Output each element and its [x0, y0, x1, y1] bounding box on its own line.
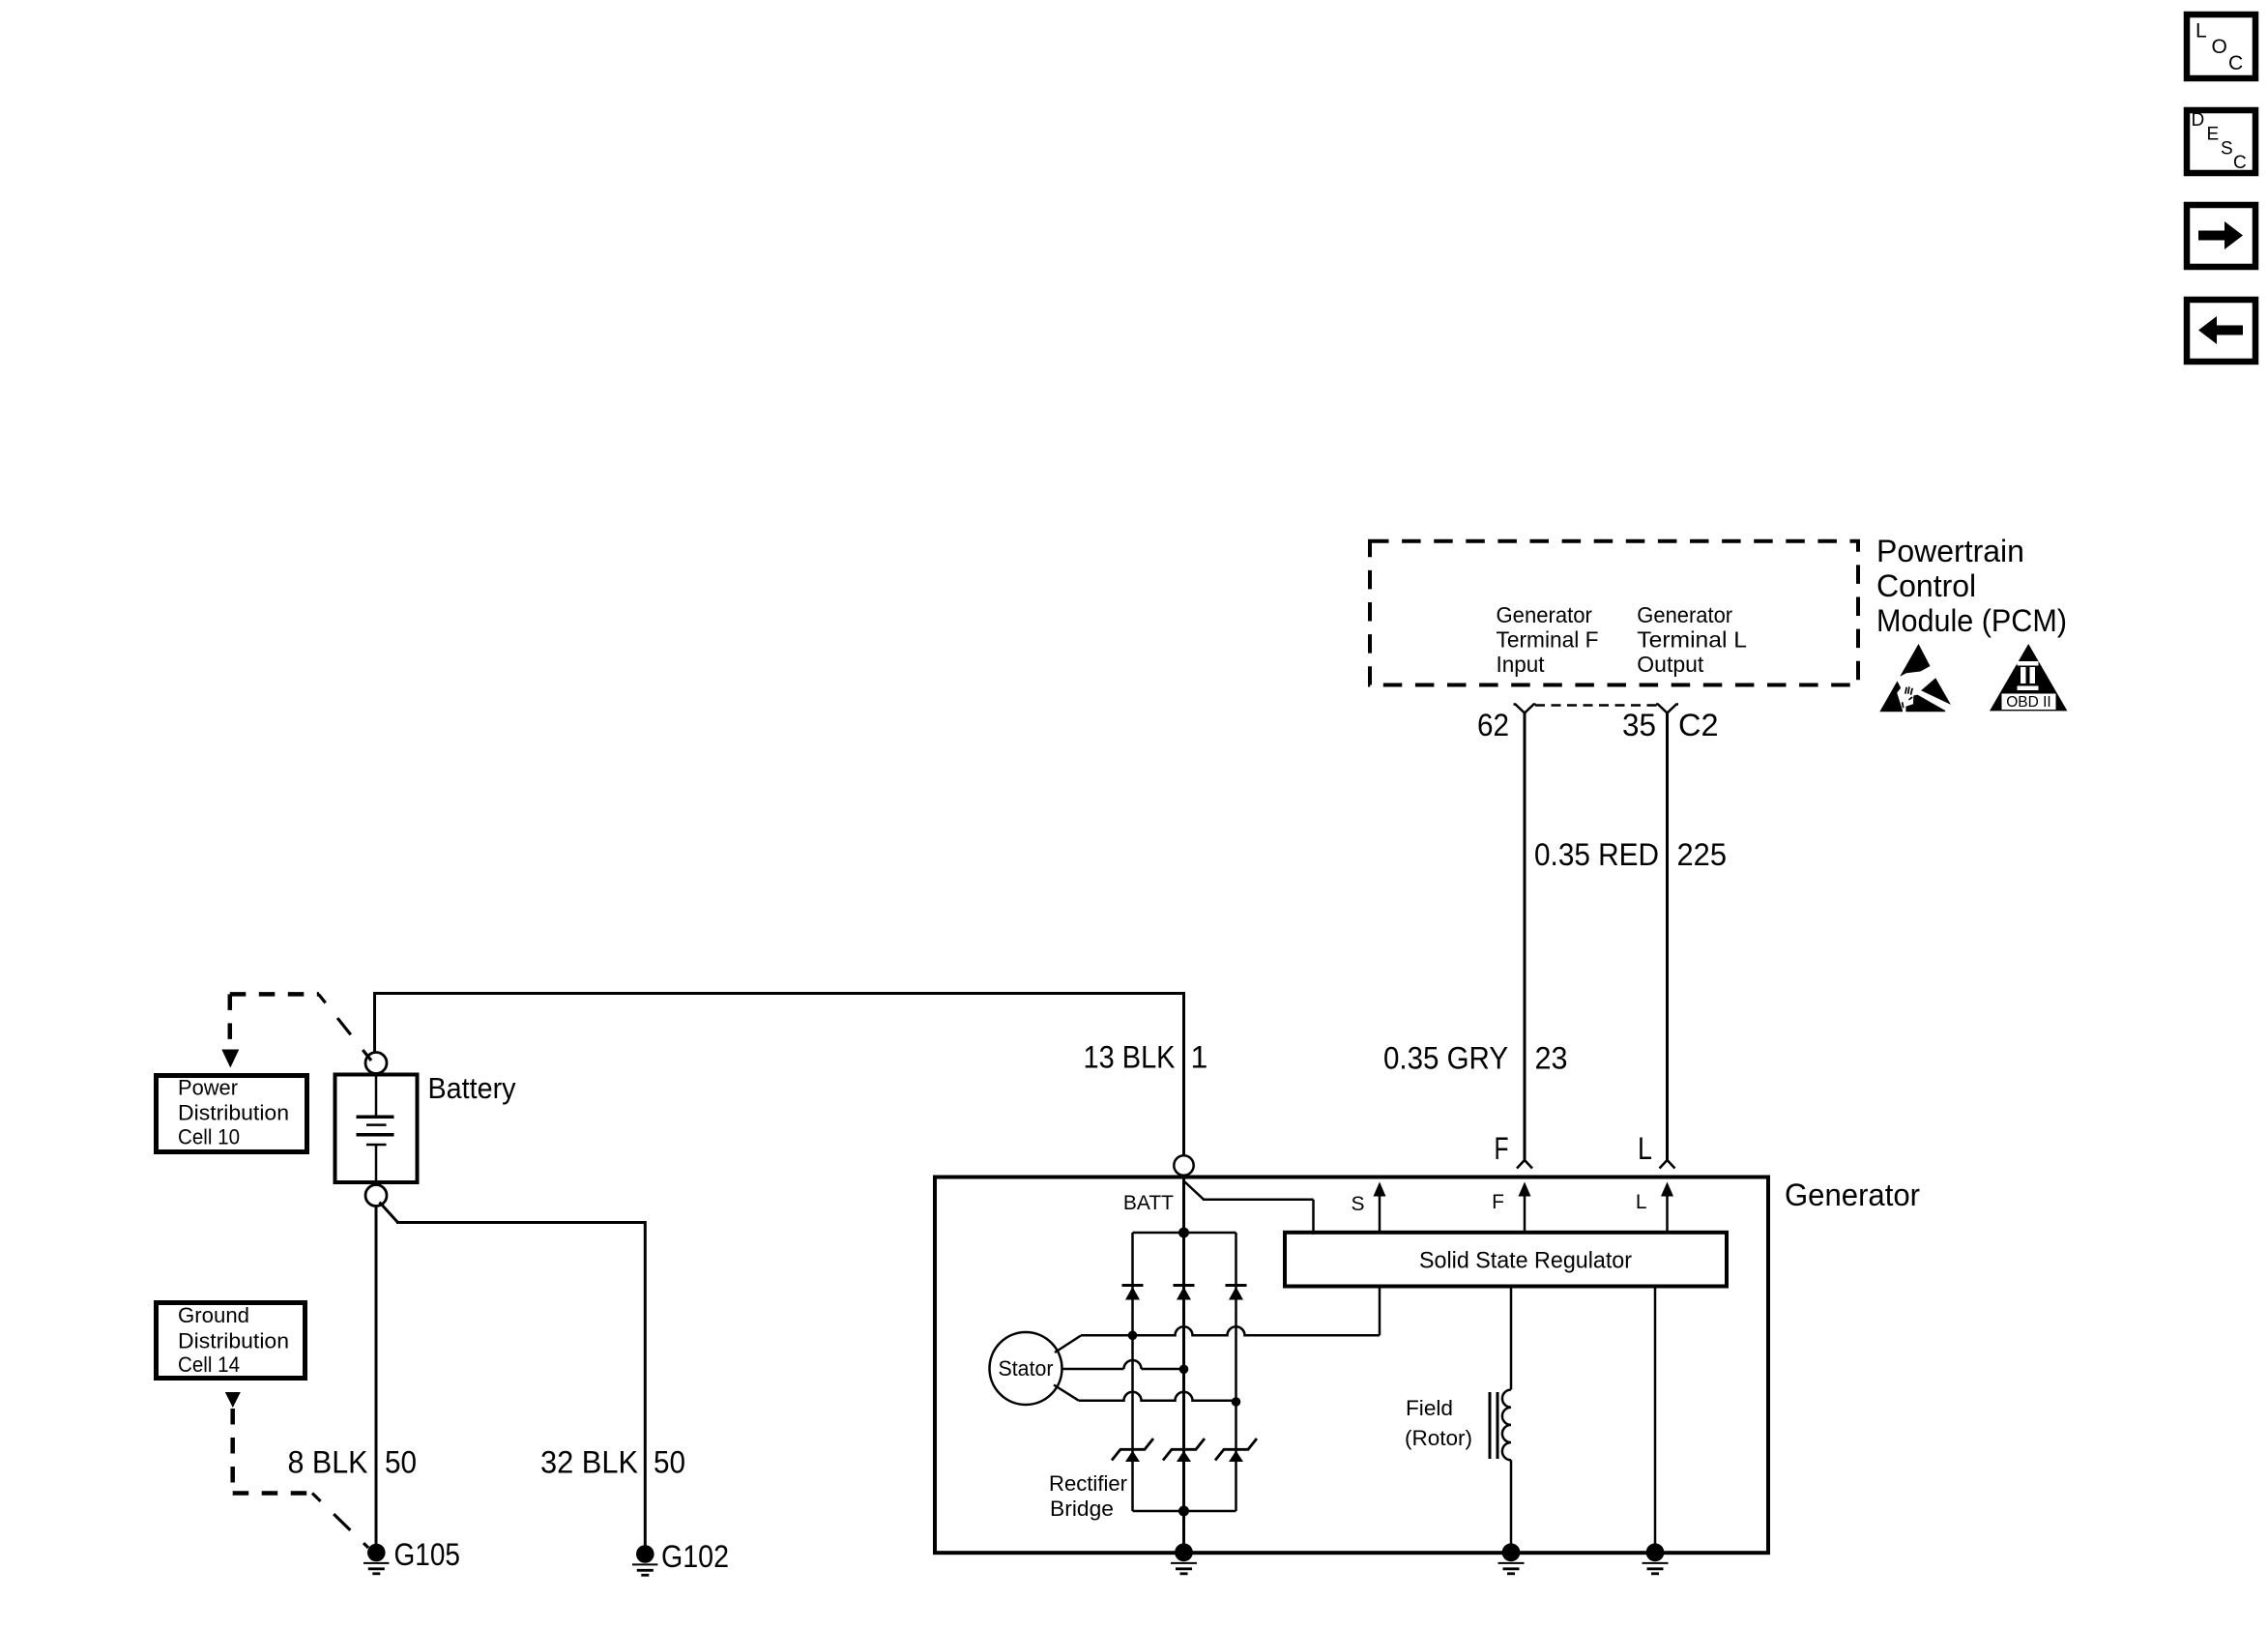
svg-text:35: 35: [1622, 708, 1656, 742]
svg-text:O: O: [2212, 36, 2227, 58]
svg-text:C: C: [2228, 52, 2243, 74]
svg-text:Terminal L: Terminal L: [1637, 627, 1747, 653]
svg-text:Ground: Ground: [178, 1303, 249, 1327]
svg-text:0.35 RED: 0.35 RED: [1534, 837, 1659, 872]
svg-text:Field: Field: [1406, 1396, 1453, 1420]
svg-text:L: L: [2195, 20, 2207, 43]
svg-text:C: C: [2233, 153, 2247, 173]
svg-text:50: 50: [385, 1445, 417, 1480]
svg-text:E: E: [2207, 125, 2220, 145]
svg-text:F: F: [1495, 1131, 1509, 1166]
svg-text:8 BLK: 8 BLK: [288, 1445, 368, 1480]
svg-text:S: S: [1351, 1193, 1364, 1215]
svg-text:23: 23: [1535, 1041, 1568, 1076]
svg-text:L: L: [1636, 1191, 1647, 1213]
svg-text:Powertrain: Powertrain: [1876, 534, 2024, 568]
svg-text:13 BLK: 13 BLK: [1084, 1040, 1176, 1075]
svg-text:Distribution: Distribution: [178, 1101, 289, 1125]
svg-text:Rectifier: Rectifier: [1049, 1471, 1127, 1496]
svg-text:L: L: [1638, 1131, 1652, 1166]
svg-text:Output: Output: [1637, 652, 1703, 677]
svg-text:Solid State Regulator: Solid State Regulator: [1419, 1248, 1632, 1274]
svg-text:D: D: [2192, 110, 2205, 131]
svg-text:225: 225: [1677, 837, 1728, 872]
svg-text:Terminal F: Terminal F: [1497, 627, 1599, 653]
svg-text:Generator: Generator: [1637, 602, 1732, 627]
svg-text:Generator: Generator: [1785, 1177, 1920, 1212]
svg-text:G102: G102: [661, 1539, 729, 1574]
svg-text:Generator: Generator: [1497, 602, 1593, 627]
svg-text:F: F: [1492, 1191, 1504, 1213]
svg-text:Cell 14: Cell 14: [178, 1352, 240, 1377]
svg-text:S: S: [2221, 139, 2233, 160]
svg-text:0.35 GRY: 0.35 GRY: [1383, 1041, 1508, 1076]
svg-text:Battery: Battery: [428, 1071, 516, 1105]
svg-text:G105: G105: [394, 1537, 461, 1572]
svg-text:Distribution: Distribution: [178, 1329, 289, 1353]
svg-text:(Rotor): (Rotor): [1405, 1426, 1472, 1450]
svg-text:Cell 10: Cell 10: [178, 1125, 240, 1149]
svg-text:Bridge: Bridge: [1050, 1497, 1114, 1521]
svg-text:32 BLK: 32 BLK: [540, 1445, 638, 1480]
svg-text:Module (PCM): Module (PCM): [1876, 603, 2067, 638]
svg-text:Stator: Stator: [999, 1356, 1054, 1381]
svg-text:Input: Input: [1497, 652, 1545, 677]
svg-text:62: 62: [1477, 708, 1509, 742]
svg-text:1: 1: [1191, 1040, 1208, 1075]
svg-text:50: 50: [654, 1445, 685, 1480]
svg-text:C2: C2: [1678, 708, 1719, 742]
svg-text:OBD II: OBD II: [2006, 694, 2051, 711]
svg-text:BATT: BATT: [1123, 1192, 1174, 1214]
svg-text:Power: Power: [178, 1076, 238, 1100]
svg-text:Control: Control: [1876, 568, 1976, 603]
